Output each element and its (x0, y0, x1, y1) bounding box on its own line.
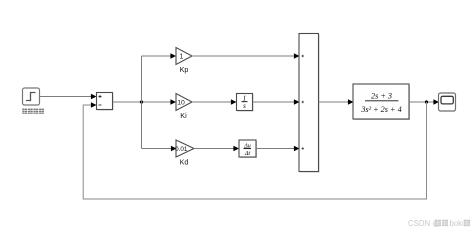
wire feedback (83, 102, 426, 199)
svg-text:boki: boki (450, 219, 465, 228)
wire Ki to integrator (192, 99, 237, 105)
svg-text:Ki: Ki (180, 111, 187, 120)
wire integrator to adder (253, 99, 300, 105)
svg-text:3s² + 2s + 4: 3s² + 2s + 4 (360, 105, 401, 114)
step source 目标温度 (23, 88, 40, 105)
gain Kd (175, 140, 194, 157)
wire step to sum (40, 94, 97, 100)
wire tf to scope (409, 99, 439, 105)
wire adder to transfer function (319, 99, 354, 105)
wire Kp to adder (192, 53, 300, 59)
wire branch to Kd (142, 146, 177, 152)
node branch junction (140, 100, 143, 103)
svg-text:10: 10 (177, 99, 185, 106)
gain Ki (176, 94, 192, 111)
adder Add (299, 34, 320, 173)
wire Kd to derivative (194, 146, 239, 152)
gain Kp (176, 48, 192, 65)
svg-text:1: 1 (180, 53, 184, 60)
svg-text:2s + 3: 2s + 3 (371, 91, 392, 100)
svg-text:Kd: Kd (180, 157, 189, 166)
wire branch to Kp (142, 53, 177, 59)
derivative du/dt (239, 140, 257, 158)
sum block (97, 93, 114, 111)
watermark CSDN (408, 219, 470, 228)
integrator 1/s (237, 94, 254, 112)
label 目标温度 (22, 109, 44, 114)
wire sum output to branch junction and Ki (113, 99, 177, 105)
wire branch vertical (141, 56, 143, 149)
svg-text:Δt: Δt (244, 151, 251, 157)
scope (439, 93, 456, 111)
svg-text:s: s (243, 103, 246, 110)
transfer function (2s+3)/(3s^2+2s+4) (353, 84, 410, 120)
svg-text:Kp: Kp (180, 65, 189, 74)
svg-text:0.01: 0.01 (175, 146, 188, 153)
node output junction (425, 100, 428, 103)
wire derivative to adder (256, 146, 300, 152)
